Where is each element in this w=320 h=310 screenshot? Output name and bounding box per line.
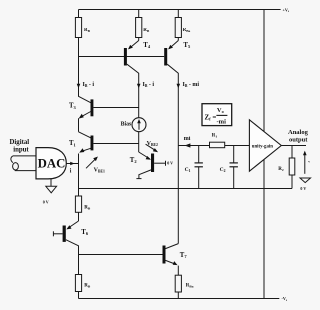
svg-text:RB: RB [84, 206, 91, 211]
resistor R2 [291, 146, 293, 159]
wire T4 collector with current arrow IB-i [127, 64, 139, 117]
ground right output [300, 178, 311, 183]
wire op-amp supply rail [263, 10, 265, 299]
current source Bias [132, 118, 146, 132]
wire T7 emitter with arrow [166, 260, 177, 264]
resistor RB2 (left middle) [75, 196, 81, 212]
wire T4 emitter with arrow [138, 38, 140, 41]
svg-text:+Vs: +Vs [283, 7, 290, 13]
transistor T3 [91, 99, 94, 116]
svg-text:Vo: Vo [217, 107, 224, 114]
svg-text:0 V: 0 V [43, 199, 49, 204]
annotation Zf formula box [202, 104, 232, 126]
transistor T5 [164, 48, 167, 66]
svg-text:0 V: 0 V [167, 161, 173, 166]
op-amp U1 unity-gain [249, 120, 281, 171]
resistor RBa1 (top right) [175, 18, 181, 38]
resistor RB3 (left bottom) [75, 275, 81, 292]
svg-text:R1: R1 [212, 133, 218, 138]
svg-text:DAC: DAC [38, 157, 66, 171]
transistor T4 [124, 48, 127, 66]
wire T3 base [93, 107, 138, 109]
svg-text:R2: R2 [278, 167, 284, 172]
svg-text:Digital: Digital [10, 139, 30, 146]
wire RB3 to bottom rail [78, 292, 80, 299]
wire left column top (rail to RB1) [78, 10, 80, 18]
transistor T1 [91, 136, 94, 151]
svg-text:input: input [13, 146, 29, 153]
wire T1 collector [79, 132, 91, 138]
annotation output voltage arrow [304, 153, 306, 174]
svg-text:RB: RB [84, 28, 91, 33]
transistor T6 [63, 226, 66, 242]
wire op-amp output [281, 145, 306, 147]
wire common bottom bus (0V return) [79, 188, 293, 190]
svg-text:RB: RB [84, 284, 91, 289]
resistor RB4 (top middle) [136, 18, 142, 38]
wire RB1 to base bus [78, 38, 80, 57]
svg-text:0 V: 0 V [300, 186, 306, 191]
wire T5 emitter with arrow [177, 38, 179, 41]
wire feedback node to op-amp input [178, 145, 249, 147]
wire T3 emitter with arrow [80, 112, 91, 118]
transistor T2 [151, 154, 154, 173]
svg-text:Bias: Bias [121, 121, 132, 127]
svg-text:RBa: RBa [183, 28, 191, 33]
wire RBa2 to bottom rail [177, 292, 179, 299]
transistor T7 [163, 246, 166, 264]
capacitor C1 [198, 146, 200, 163]
wire top +Vs rail [79, 9, 281, 11]
wire T4/T5 base bus [79, 56, 165, 58]
ground below DAC [50, 179, 52, 186]
wire DAC input top line [13, 155, 36, 157]
svg-text:Analog: Analog [288, 129, 309, 136]
wire T1 emitter with arrow [81, 148, 91, 151]
svg-text:v: v [308, 160, 310, 164]
wire T6 collector [66, 240, 79, 275]
wire T2 collector stub with tick [139, 170, 151, 179]
wire T7 collector [166, 244, 179, 249]
wire T7 base bus [79, 254, 163, 256]
DAC input cable hook [11, 156, 13, 163]
DAC input cable ellipse [13, 163, 19, 170]
wire T3 collector with current arrow IB-i [79, 57, 91, 103]
svg-text:output: output [289, 136, 308, 143]
annotation VBE1 arrow [86, 158, 97, 168]
svg-text:-mi: -mi [217, 119, 227, 126]
svg-text:IB - i: IB - i [83, 82, 95, 88]
wire bias to T2 emitter junction [138, 132, 140, 152]
wire DAC input bottom line [15, 170, 36, 172]
wire RB2 to T6 emitter with arrow [78, 212, 80, 221]
svg-text:RBa: RBa [186, 283, 194, 288]
svg-text:Zf =: Zf = [205, 113, 217, 121]
wire T2 base stub to 0V with tick [154, 162, 165, 164]
svg-text:-Vs: -Vs [282, 296, 288, 302]
wire T6 base stub with tick [53, 233, 62, 235]
DAC block [36, 148, 66, 179]
wire middle column top (rail to RB4) [138, 10, 140, 18]
wire DAC output with current arrow i [66, 163, 78, 165]
svg-text:RB: RB [143, 28, 150, 33]
resistor RBa2 (bottom) [175, 275, 181, 292]
wire T1 base [93, 143, 138, 145]
capacitor C2 [233, 146, 235, 163]
svg-text:mi: mi [184, 136, 191, 142]
resistor R1 [210, 142, 225, 148]
resistor RB1 [75, 18, 81, 38]
wire T2 emitter with arrow [139, 152, 150, 159]
wire right column top (rail to RBa1) [177, 10, 179, 18]
svg-text:unity-gain: unity-gain [252, 144, 273, 149]
wire bottom -Vs rail [79, 298, 280, 300]
wire T5 collector with current arrow IB-mi [167, 64, 178, 243]
svg-text:IB - i: IB - i [143, 82, 155, 88]
